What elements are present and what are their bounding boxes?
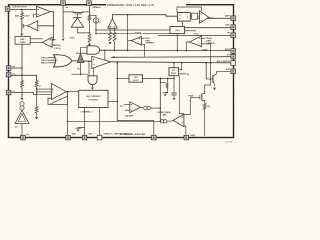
wire G3 out junction <box>104 50 106 52</box>
wire A2 stubs <box>52 39 56 41</box>
svg-text:LED: LED <box>134 77 138 79</box>
svg-text:REF: REF <box>20 39 25 41</box>
wire channel gnd stub <box>78 127 85 129</box>
buffer B1 <box>27 21 37 31</box>
wire v1 to ledlogic <box>117 77 129 79</box>
wire to G2 input b <box>92 68 94 76</box>
wire A3 out to box <box>66 91 78 93</box>
svg-text:GND: GND <box>226 69 231 71</box>
wire B2 up to G3 <box>81 48 88 54</box>
svg-text:CURRENT: CURRENT <box>145 43 155 45</box>
svg-text:GND: GND <box>88 134 93 136</box>
vertical V2 <box>159 78 161 121</box>
ground M4 <box>165 89 168 93</box>
pin top VIN <box>61 1 66 6</box>
junction G1 out <box>88 61 90 63</box>
ground channel <box>75 127 80 129</box>
bus L3 <box>111 62 231 63</box>
wire A1 feedback to B1 <box>50 12 53 40</box>
wire to G2 input a <box>88 61 90 76</box>
wire HC apex down <box>186 42 189 51</box>
svg-text:PWM/Iset: PWM/Iset <box>92 6 101 9</box>
svg-text:4.5V & 26/32/20: 4.5V & 26/32/20 <box>217 60 230 63</box>
junction vcc x22 <box>21 75 23 77</box>
ground Q1 <box>213 88 216 91</box>
resistor R4b <box>88 34 91 42</box>
vertical line x127 <box>127 15 129 51</box>
channel box <box>79 90 108 107</box>
wire B2 down to rail <box>80 63 82 75</box>
wire M4 gate <box>160 78 166 82</box>
pin bottom PWM <box>184 135 189 140</box>
junction cs1 slope <box>95 29 97 31</box>
wire pin VSUP to comparator <box>10 9 37 11</box>
wire G2 left input <box>72 73 89 75</box>
diode D1 zener <box>71 18 83 27</box>
svg-text:xx TSENSE (x2 ,x4) EXPOSED: xx TSENSE (x2 ,x4) EXPOSED <box>120 133 146 136</box>
resistor R7 <box>203 104 206 110</box>
pin bottom TSENSE <box>152 135 157 140</box>
pin left CTRL <box>6 90 11 95</box>
svg-text:9-900B: 9-900B <box>202 49 208 51</box>
wire CLK pin down <box>88 5 90 14</box>
wire R1 to M1 drain <box>21 20 23 24</box>
svg-text:PW(5): PW(5) <box>190 135 195 137</box>
pin right 6 <box>231 61 236 66</box>
wire CB to V1 <box>108 100 117 102</box>
arrow vin end <box>62 39 65 41</box>
wire channel to pgnd pin <box>99 108 101 136</box>
pin right 5 <box>231 54 236 59</box>
current source CS2 <box>20 102 24 106</box>
wire G1 output <box>72 60 92 62</box>
wire box bottom <box>173 76 175 79</box>
overvoltage amp T3 <box>173 114 184 127</box>
wire T3 out down <box>184 126 186 135</box>
svg-text:(EN)S: (EN)S <box>225 49 231 51</box>
svg-text:THRESHOLDS: V(LO) = 1.8V, V(H: THRESHOLDS: V(LO) = 1.8V, V(HI) = 1.4V <box>107 4 154 7</box>
svg-text:1.45V: 1.45V <box>70 36 76 39</box>
resistor R6 <box>113 32 116 41</box>
transistor M1 <box>22 23 28 28</box>
pin left ISET <box>6 66 11 71</box>
pin bottom PGND <box>97 135 102 140</box>
wire box arrow1 <box>180 63 183 70</box>
bus L5 <box>117 121 154 136</box>
svg-text:10k: 10k <box>207 106 210 108</box>
led logic box <box>129 75 143 82</box>
wire CTRL pin to A3 <box>11 93 51 95</box>
wire junction down to R1 <box>21 10 23 13</box>
title note <box>106 3 186 7</box>
wire FF to OSC <box>182 21 184 26</box>
wire G2 output arrow <box>91 85 93 88</box>
capacitor C1 <box>173 78 175 92</box>
svg-text:V​ref: V​ref <box>226 55 230 57</box>
junction <box>21 9 23 11</box>
comparator HC <box>189 36 201 47</box>
resistor R1 400k <box>21 13 24 20</box>
wire C2 apex to vert <box>128 40 132 42</box>
triangle T2 pwm comparator <box>92 56 111 68</box>
chain link circles 2 <box>167 120 173 123</box>
buffer B2 shaded <box>77 53 84 62</box>
flip-flop FF <box>178 13 191 22</box>
svg-text:DISC: DISC <box>226 25 231 27</box>
svg-text:Vcc: Vcc <box>12 73 15 75</box>
pin right 2 <box>231 25 236 30</box>
svg-text:LED AMP: LED AMP <box>125 115 134 118</box>
wire C2 stub1 <box>141 37 144 39</box>
wire TR1 out <box>209 17 214 18</box>
svg-text:1S(5): 1S(5) <box>72 134 77 136</box>
label SLOPE <box>133 31 143 34</box>
svg-text:CONTROL: CONTROL <box>88 99 99 101</box>
opamp input marks <box>38 9 39 11</box>
op-amp A1 <box>37 6 51 17</box>
svg-text:SLOPE: SLOPE <box>135 32 142 34</box>
pin bottom GND <box>82 135 87 140</box>
vref triangle <box>15 110 29 123</box>
wire box arrow2 <box>179 73 181 75</box>
svg-text:PBUS: PBUS <box>189 95 195 97</box>
wire C2 to L2 <box>141 44 144 57</box>
wire R2 down <box>36 87 38 106</box>
svg-text:START: START <box>171 72 177 75</box>
op-amp TU1 <box>108 19 118 28</box>
wire FF out to pin <box>190 16 231 18</box>
wire A1 input stub <box>33 14 36 17</box>
svg-text:V​ref: V​ref <box>14 127 18 129</box>
pin bottom 1S <box>66 135 71 140</box>
current source CS1 <box>89 15 96 17</box>
pin VSUP left top <box>5 7 10 12</box>
wire R4 down <box>88 21 90 33</box>
wire OSC out2 <box>185 30 196 32</box>
ramp generator loop <box>48 92 68 105</box>
wire R8 arrow <box>36 113 38 116</box>
svg-text:LED CURRENT: LED CURRENT <box>86 96 102 98</box>
vertical V3 <box>205 63 207 79</box>
bus vhi to pin3 <box>158 34 231 36</box>
wire box top to L3 <box>173 63 175 68</box>
svg-text:I​ref: I​ref <box>26 134 29 136</box>
wire A3 input2 <box>37 91 51 93</box>
pin bottom IREF <box>21 135 26 140</box>
wire ramp down to pin <box>67 104 69 135</box>
comparator A3 <box>51 84 66 100</box>
svg-text:xxx: xxx <box>12 91 15 93</box>
wire M1 source down <box>21 29 23 34</box>
resistor R2 <box>35 81 38 88</box>
svg-text:1.45V: 1.45V <box>24 15 30 18</box>
svg-text:SUPERVISOR: SUPERVISOR <box>13 7 28 9</box>
wire VIN pin down <box>62 5 64 37</box>
wire VCC rail <box>11 75 37 80</box>
chain link circles <box>141 106 144 109</box>
wire T3 out up <box>184 98 190 115</box>
mosfet M3 pbus <box>189 85 211 104</box>
wire vref to pin <box>21 124 23 136</box>
and-gate G2 vertical <box>88 76 97 85</box>
svg-text:ERR,LH: ERR,LH <box>41 63 48 65</box>
wire gate to D1 <box>76 14 78 17</box>
reference box REF 1.45V <box>15 37 30 45</box>
arrow R5 end <box>109 42 112 45</box>
arrow into reference <box>20 34 23 37</box>
transistor M4 <box>166 78 168 88</box>
box before TR1 <box>192 13 198 19</box>
wire OSC down <box>176 34 178 51</box>
wire R6 to L1 <box>113 41 115 50</box>
resistor R5 <box>109 32 112 41</box>
svg-text:aaa-034: aaa-034 <box>225 140 233 143</box>
transistor Q1 npn <box>206 71 231 86</box>
resistor R4 <box>88 15 91 21</box>
start box <box>169 68 179 76</box>
svg-text:OSC: OSC <box>175 30 180 32</box>
svg-text:1.45V: 1.45V <box>20 41 26 44</box>
wire A3 input1 <box>37 88 51 90</box>
wire G3 input2 <box>76 52 87 54</box>
IC boundary box <box>9 5 234 138</box>
svg-text:SUPE: SUPE <box>225 16 231 18</box>
svg-text:2.0V(L): 2.0V(L) <box>54 48 61 50</box>
svg-text:LOGIC: LOGIC <box>133 80 140 82</box>
wire R7 to rail <box>204 109 206 136</box>
pin right 1 <box>231 16 236 21</box>
resistor R8 <box>35 106 38 113</box>
pass transistor M2 lateral <box>63 11 74 13</box>
comparator A2 <box>42 37 52 47</box>
vertical V1 <box>116 63 118 121</box>
wire TR1 feedback <box>177 7 202 13</box>
bus L2 with arrow <box>111 56 114 58</box>
wire T4 inputs <box>124 104 130 106</box>
and-gate G3 <box>87 46 100 54</box>
wire led line ext <box>143 77 175 79</box>
wire feedback x179 <box>179 76 184 114</box>
wire channel lines <box>30 38 43 40</box>
wire TU1 out to FF <box>112 15 177 19</box>
pin left VCC <box>6 72 11 77</box>
svg-text:CHANNEL 1: CHANNEL 1 <box>80 111 93 114</box>
wire left pin ISET <box>11 67 22 69</box>
wire D1 to rail <box>77 27 89 33</box>
svg-text:xx: xx <box>39 85 41 87</box>
junction ramp <box>67 121 69 123</box>
wire CS1 down <box>95 23 97 34</box>
pin right 3 <box>231 33 236 38</box>
junction tu1 line <box>127 14 129 16</box>
comparator C2 <box>131 37 141 46</box>
bus L4 <box>68 120 161 122</box>
osc box <box>170 27 185 34</box>
pin right 4 <box>231 49 236 54</box>
wire OSC to pin2 <box>185 27 231 29</box>
pin top CLK <box>87 1 92 6</box>
pin right 7 <box>231 69 236 74</box>
wire channel to gnd pin <box>84 108 86 136</box>
or inputs <box>48 57 56 59</box>
svg-text:4.0P(L): 4.0P(L) <box>54 44 61 47</box>
wire HC stubs <box>202 37 206 39</box>
or-gate G1 <box>54 55 73 67</box>
led amp T4 <box>130 102 141 113</box>
op-amp TR1 <box>200 11 209 24</box>
bus L1 <box>100 49 231 51</box>
wire vref chain arrow <box>21 98 24 100</box>
wire REF down rail <box>21 44 23 80</box>
bus slope upper <box>96 29 170 31</box>
bus slope lower <box>96 33 170 35</box>
vertical V4 <box>205 44 210 85</box>
svg-text:xxx: xxx <box>12 66 15 68</box>
